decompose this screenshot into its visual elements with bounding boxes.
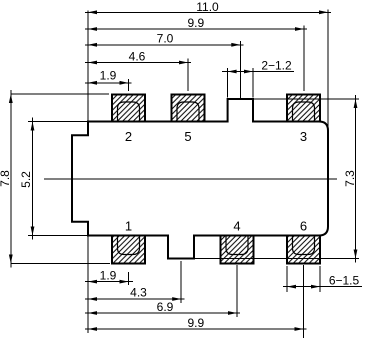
svg-text:7.0: 7.0 (157, 31, 174, 45)
svg-text:7.3: 7.3 (343, 170, 357, 187)
svg-text:1.9: 1.9 (100, 269, 117, 283)
svg-text:7.8: 7.8 (0, 170, 12, 187)
svg-text:4.3: 4.3 (130, 286, 147, 300)
svg-text:5.2: 5.2 (19, 171, 33, 188)
svg-text:5: 5 (184, 129, 191, 144)
svg-text:4: 4 (233, 219, 240, 234)
svg-text:1.9: 1.9 (100, 69, 117, 83)
svg-text:6.9: 6.9 (157, 300, 174, 314)
svg-text:6: 6 (300, 219, 307, 234)
svg-text:4.6: 4.6 (129, 49, 146, 63)
svg-text:9.9: 9.9 (187, 316, 204, 330)
svg-text:2: 2 (125, 129, 132, 144)
svg-text:2−1.2: 2−1.2 (261, 59, 292, 73)
svg-text:9.9: 9.9 (187, 16, 204, 30)
svg-text:6−1.5: 6−1.5 (329, 274, 360, 288)
svg-text:11.0: 11.0 (196, 0, 219, 14)
svg-text:1: 1 (125, 219, 132, 234)
svg-text:3: 3 (300, 129, 307, 144)
